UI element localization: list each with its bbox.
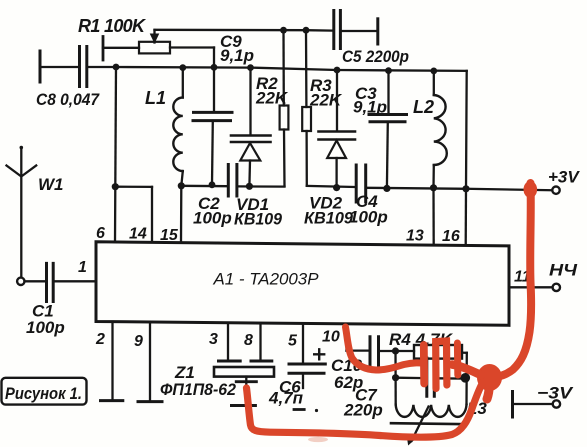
svg-text:22K: 22K [255,89,289,108]
svg-text:L2: L2 [413,97,434,117]
pin 6 stub [96,187,115,242]
capacitor C2 100p (series) [193,165,237,228]
resistor R1 100K potentiometer [78,16,214,60]
filter Z1 FP1P8-62 [160,361,274,406]
capacitor C8 [36,47,116,110]
terminal -3V [513,384,574,418]
node: C8 / antenna column junction [113,64,120,71]
capacitor C6 4,7 (electrolytic) [268,349,325,412]
node: C10 / tank top junction [392,347,399,354]
svg-text:3: 3 [209,331,218,348]
wire: pin 14 stub [151,187,153,242]
svg-text:100p: 100p [193,209,232,228]
wire: RF top rail [116,67,467,71]
pin 10 stub [322,324,347,350]
svg-text:L1: L1 [145,88,166,108]
svg-text:КВ109: КВ109 [304,209,354,228]
capacitor C10 62p [331,337,396,392]
node: L2 top on RF rail [430,68,437,75]
node: VD2 top on RF rail [334,67,341,74]
svg-text:ФП1П8-62: ФП1П8-62 [160,380,236,399]
wire: +3V feed [466,189,552,190]
node: tank bottom-left junction [392,374,399,381]
pin 2 stub with common bar [95,322,123,401]
resistor R2 22K [255,30,289,186]
svg-text:9: 9 [134,333,143,350]
svg-text:9,1p: 9,1p [353,98,387,117]
svg-text:НЧ: НЧ [549,261,578,280]
terminal НЧ (audio out) [549,261,578,292]
svg-text:100p: 100p [349,208,388,227]
svg-text:1: 1 [78,259,87,276]
red annotation: scribble П-shape over C7 [436,341,447,389]
wire: tank bottom wire through C7 [396,377,467,380]
svg-text:15: 15 [160,227,179,244]
figure caption box "Рисунок 1." [2,378,87,405]
node: C9 bottom on tank rail [209,181,216,188]
svg-text:13: 13 [406,228,424,245]
node: C3 top on RF rail [385,67,392,74]
terminal +3V [548,168,580,194]
node: pins 6/14 rail junction [112,183,119,190]
svg-text:5: 5 [288,333,298,350]
node: L1 top on RF rail [179,64,186,71]
svg-text:A1 - TA2003P: A1 - TA2003P [212,271,318,289]
red annotation: marker trace from +3V down to tank blob [247,181,538,442]
node: L1 bottom / pin 15 junction [178,182,185,189]
svg-text:−3V: −3V [537,384,574,403]
svg-text:R1 100K: R1 100K [78,16,147,36]
pin 13 stub [406,188,434,245]
op-amp/IC A1 TA2003P [96,242,509,325]
svg-text:Рисунок 1.: Рисунок 1. [5,385,82,403]
resistor R4 4,7K [389,330,467,359]
svg-text:C5 2200p: C5 2200p [342,47,409,66]
wire: tank right vertical [465,353,468,404]
wire: R1 right end down to RF rail [213,48,215,68]
pin 3 stub [209,323,228,360]
wire: pin 10 to C10 [347,349,370,351]
varicap VD2 KB109 [304,70,355,228]
wire input bar to C8 [40,66,78,68]
svg-text:10: 10 [322,329,340,346]
terminal bar top-left input [39,51,42,82]
node: R2 top on tuning bus [280,27,287,34]
node: L2 bottom / pin 13 junction [430,184,437,191]
capacitor C1 100p [26,263,65,337]
resistor R3 22K [302,30,343,186]
svg-text:100p: 100p [26,318,65,337]
antenna W1 [7,146,64,277]
wire: left column down to bottom rail (pin 6 column) [114,67,117,187]
wire: right rail down to pin 16 [465,71,468,189]
pin 14 label [129,226,147,243]
node: VD2 bottom junction [333,184,340,191]
svg-text:8: 8 [244,332,253,349]
wire: bottom rail segment pins 6-14 [115,186,152,188]
svg-text:4,7п: 4,7п [268,389,304,408]
varicap VD1 KB109 [231,68,283,229]
capacitor C4 100p (series) [349,165,388,227]
node: tank bottom-right junction (big) [461,373,471,383]
node: C9 top on RF rail [211,64,218,71]
svg-text:220p: 220p [343,401,383,420]
svg-text:14: 14 [129,226,147,243]
inductor L2 [413,71,447,188]
wire: C1 to pin 1 [55,280,97,282]
wire: R1 wiper tuning bus to C5 [155,29,332,32]
svg-text:КВ109: КВ109 [234,210,283,229]
capacitor C3 9,1p [353,71,407,189]
pin 5 stub [288,324,303,363]
red annotation: trace from pin 10 along C10 to tank [346,327,425,370]
svg-text:C8 0,047: C8 0,047 [36,90,100,109]
svg-text:9,1p: 9,1p [220,46,254,65]
pin 9 stub with common bar [134,322,162,401]
pin 11 wire [509,269,552,288]
node: VD1 bottom junction [246,183,253,190]
svg-text:16: 16 [442,228,460,245]
inductor L1 [145,68,183,186]
svg-text:6: 6 [96,225,105,242]
svg-text:W1: W1 [38,175,64,194]
red annotation: scribble stroke over R4 left [420,345,428,384]
red annotation: loop from Z1 bottom around L3 to blob [247,382,484,437]
wire: tank bottom rail L1 to R2 [181,185,284,188]
capacitor C5 2200p [334,11,409,67]
inductor L3 (adjustable) [391,399,487,445]
node: C3 bottom junction [383,185,390,192]
pin 15 stub [160,186,181,244]
red annotation: faint smudge under loop [308,437,328,442]
pin 8 stub [244,323,261,360]
red annotation: scribble stroke right of C7 [454,343,461,375]
capacitor C7 220p (series) [343,358,434,420]
svg-text:+3V: +3V [548,168,580,187]
wire: tank left vertical [394,351,397,405]
wire: tank bottom rail R3 to +3V rail [307,186,466,189]
terminal: antenna socket [17,278,24,285]
wire: antenna socket to C1 [25,280,47,282]
capacitor C9 [193,32,254,185]
pin 1 label [78,259,87,276]
pin 16 stub [442,189,466,245]
node: right rail / pin 16 junction [462,185,469,192]
red annotation: big blob at tank right junction [477,364,502,391]
red annotation: blob on +3V wire [524,181,538,198]
svg-text:2: 2 [95,331,105,348]
node: VD1 top on RF rail [247,64,254,71]
node: R3 top on tuning bus [303,27,310,34]
